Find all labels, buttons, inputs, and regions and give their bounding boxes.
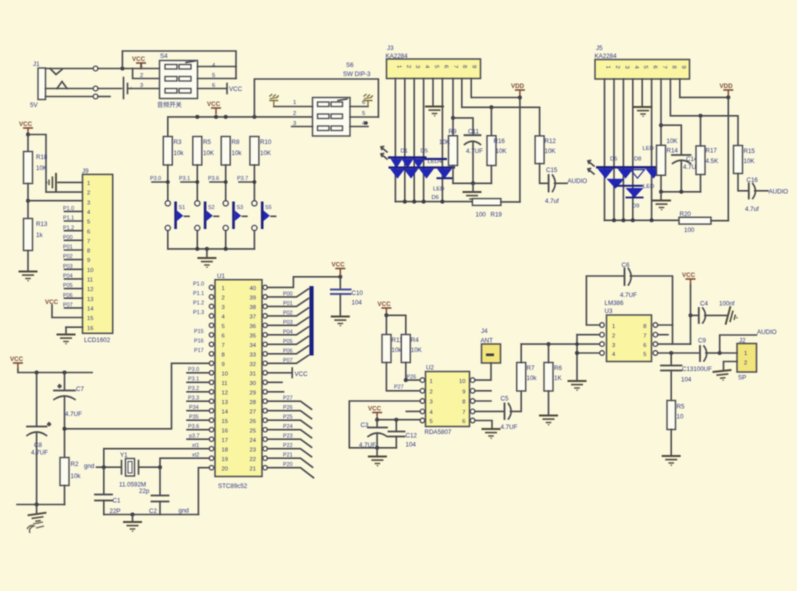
junction crystal right [158, 465, 162, 469]
U1 right pin numbers [250, 286, 257, 472]
svg-text:R3: R3 [174, 139, 182, 146]
svg-text:8: 8 [643, 324, 646, 330]
svg-text:VCC: VCC [132, 56, 146, 63]
svg-text:4.7UF: 4.7UF [620, 292, 637, 299]
svg-text:P02: P02 [63, 254, 73, 260]
svg-text:7: 7 [661, 66, 667, 69]
U3 pin1 wire to C6 loop [586, 276, 623, 325]
wire R12 bottom to C15 [540, 164, 548, 184]
svg-text:AUDIO: AUDIO [568, 178, 588, 185]
S4 switch element row3 [165, 89, 191, 94]
svg-text:R16: R16 [494, 138, 506, 145]
ground below R6 [539, 416, 558, 425]
svg-text:P20: P20 [283, 462, 293, 468]
junction VCC/C10 [338, 275, 342, 279]
crystal top row wire [97, 466, 122, 468]
U2 right pin circles [470, 378, 475, 423]
svg-text:C4: C4 [700, 301, 708, 308]
wire R17 top riser [700, 116, 702, 146]
wire pin7 to C14 top [661, 125, 681, 154]
svg-text:27: 27 [250, 409, 256, 415]
svg-text:10k: 10k [174, 150, 185, 157]
svg-text:R5: R5 [677, 404, 685, 411]
svg-text:20: 20 [222, 466, 228, 472]
svg-text:1: 1 [222, 286, 225, 292]
svg-text:P3.7: P3.7 [237, 176, 248, 182]
svg-text:D6: D6 [610, 157, 617, 163]
junction C13 [669, 351, 673, 355]
VCC bar at S4 pin6 [226, 84, 228, 94]
polarized capacitor at jack ring [124, 78, 133, 99]
U3 pin4 wire [577, 352, 600, 354]
wire R11 bottom to U2 pin2 [386, 363, 422, 391]
svg-text:P01: P01 [63, 245, 73, 251]
LED triangles row2 [390, 169, 405, 179]
svg-text:P1.1: P1.1 [193, 291, 204, 297]
junction dots ground rail [195, 247, 199, 251]
ground below R5 [662, 456, 681, 465]
junction dots rails [659, 190, 663, 194]
svg-text:10: 10 [87, 268, 93, 274]
ground at J3 pin5 [425, 107, 444, 116]
U1 body [215, 280, 262, 477]
svg-text:D6: D6 [432, 195, 439, 201]
svg-text:S1: S1 [179, 205, 186, 211]
svg-text:P26: P26 [407, 375, 417, 381]
svg-text:S5: S5 [265, 205, 272, 211]
svg-text:18: 18 [222, 447, 228, 453]
svg-text:P17: P17 [194, 348, 204, 354]
svg-text:P06: P06 [283, 348, 293, 354]
svg-text:C15: C15 [546, 167, 558, 174]
wire sleeve stub [98, 96, 110, 98]
S6 loop top wire [254, 79, 378, 117]
mini power symbol at S6 pin6 [364, 94, 374, 107]
svg-text:VCC: VCC [45, 299, 59, 306]
svg-text:C3: C3 [361, 422, 369, 429]
svg-text:gnd: gnd [84, 463, 95, 470]
svg-text:7: 7 [452, 65, 458, 68]
wire C10 bottom [339, 294, 341, 316]
J5 pin8 wire to R17/R15 [670, 79, 738, 146]
wire C1 bottom [103, 501, 105, 515]
svg-text:10K: 10K [545, 148, 557, 155]
svg-text:R19: R19 [491, 212, 503, 219]
svg-text:15: 15 [222, 419, 228, 425]
svg-text:P3.6: P3.6 [208, 176, 219, 182]
P2 wires pins 28-21 [267, 401, 313, 478]
S6 switch element row3 [318, 126, 343, 131]
svg-text:6: 6 [362, 100, 365, 106]
svg-text:P25: P25 [283, 415, 293, 421]
wire VCC to pin1 [140, 63, 142, 69]
wire C1 column [103, 467, 105, 494]
resistor R7 [517, 363, 526, 392]
svg-text:22p: 22p [139, 488, 150, 495]
svg-text:VCC: VCC [207, 101, 221, 108]
bottom left rail [17, 504, 65, 506]
svg-text:VDD: VDD [720, 83, 734, 90]
U1 left pin labels P1.x [193, 282, 204, 355]
svg-text:VCC: VCC [332, 262, 346, 269]
wire C13 to R5 [670, 371, 672, 401]
ground smudge artifact [27, 522, 44, 533]
svg-text:J3: J3 [387, 45, 394, 52]
ground below crystal [132, 515, 134, 522]
P2 net labels [283, 396, 293, 469]
wire VCC to R18 [27, 135, 29, 152]
wire U1 pin40 to VCC [267, 277, 340, 288]
svg-text:P1.3: P1.3 [193, 310, 204, 316]
wire C3 bottom [376, 435, 378, 448]
svg-text:1: 1 [87, 181, 90, 187]
svg-text:R13: R13 [36, 221, 48, 228]
wire C9 to output node [706, 352, 720, 354]
junction rail R8 [224, 115, 228, 119]
wire R4 bottom to U2 pin1 [406, 363, 423, 381]
svg-text:D5: D5 [421, 149, 428, 155]
svg-text:10K: 10K [36, 165, 48, 172]
resistor R10 [250, 137, 259, 166]
U2 body [426, 372, 470, 427]
wire S4 pin4 [198, 66, 237, 68]
J5 pin9 wire to VDD [680, 79, 729, 97]
svg-text:4.7UF: 4.7UF [31, 450, 48, 457]
svg-text:P03: P03 [283, 320, 293, 326]
svg-text:R17: R17 [706, 148, 718, 155]
wire R2 bottom [64, 486, 66, 505]
svg-text:5: 5 [643, 352, 646, 358]
resistor R14 [657, 145, 666, 175]
svg-text:R9: R9 [449, 129, 457, 136]
svg-text:28: 28 [250, 400, 256, 406]
wire S4 pin5 [198, 78, 237, 80]
mini power symbol at S6 pin1 [269, 94, 279, 107]
U1 right pin circles [263, 285, 267, 470]
R14/C14/R17 bottom rail [660, 175, 662, 192]
svg-text:3: 3 [414, 65, 420, 68]
S6 pin5 wire [350, 116, 378, 118]
pushbutton S1 [165, 201, 189, 231]
svg-text:1: 1 [612, 324, 615, 330]
svg-text:10K: 10K [439, 139, 451, 146]
svg-text:6: 6 [643, 343, 646, 349]
U1 pin9 RST wire [65, 363, 210, 429]
J3 LED bottom rail [395, 201, 472, 203]
wire C4 to ground [705, 314, 727, 316]
svg-text:40: 40 [250, 286, 256, 292]
svg-text:VCC: VCC [682, 272, 696, 279]
wire R5 bottom [670, 430, 672, 456]
wire ring to cap [98, 88, 122, 90]
U2 pin7 wire to C5 [475, 410, 503, 412]
svg-text:J5: J5 [596, 45, 603, 52]
svg-text:P1.0: P1.0 [193, 282, 204, 288]
node circle sleeve [93, 94, 98, 99]
svg-text:P04: P04 [63, 274, 73, 280]
junction C8/rail [35, 503, 39, 507]
svg-text:104: 104 [406, 442, 417, 449]
svg-text:4.7UF: 4.7UF [65, 411, 82, 418]
S6 switch element row1 [318, 99, 348, 107]
resistor R11 [382, 335, 391, 363]
U3 right pin circles [653, 323, 658, 356]
svg-text:R5: R5 [203, 139, 211, 146]
svg-text:4.7UF: 4.7UF [501, 424, 518, 431]
svg-text:RDA5807: RDA5807 [425, 429, 452, 436]
svg-text:C10: C10 [352, 290, 364, 297]
svg-text:2: 2 [87, 191, 90, 197]
LED mid bar block2 [616, 185, 644, 187]
junction R4/pin1 [404, 378, 408, 382]
svg-text:P1.0: P1.0 [63, 206, 74, 212]
wire R16 top [490, 107, 492, 135]
svg-text:9: 9 [462, 390, 465, 396]
capacitor C15 [549, 175, 556, 192]
svg-text:gnd: gnd [179, 508, 190, 515]
ground below C10 [331, 317, 350, 326]
ground below C11 [472, 183, 474, 191]
svg-text:LM386: LM386 [605, 300, 624, 307]
LED cluster block1 emission arrows [381, 147, 387, 160]
junction crystal gnd [131, 513, 135, 517]
wire S4 pin6 [198, 88, 228, 90]
svg-text:4.7uf: 4.7uf [745, 206, 759, 213]
svg-text:J1: J1 [33, 61, 40, 68]
junction C4 tap [689, 313, 693, 317]
P0 net labels [283, 291, 293, 363]
svg-text:P23: P23 [283, 434, 293, 440]
capacitor C5 [505, 404, 512, 420]
svg-text:P3.1: P3.1 [179, 176, 190, 182]
svg-text:6: 6 [87, 229, 90, 235]
svg-text:4.5K: 4.5K [706, 158, 720, 165]
svg-text:P26: P26 [283, 405, 293, 411]
S6 pin4 wire [350, 126, 368, 128]
VCC symbol at S4 pin1 [136, 63, 146, 70]
wire jack sleeve row [46, 96, 94, 98]
svg-text:R6: R6 [554, 365, 562, 372]
svg-text:S3: S3 [237, 205, 244, 211]
J9 pin numbers [87, 181, 94, 332]
svg-text:R15: R15 [744, 148, 756, 155]
wire R18 bottom [27, 184, 29, 219]
svg-text:1: 1 [744, 351, 747, 357]
wire J2 pin1 [720, 352, 737, 354]
J5 pin7 column to R14 [660, 79, 662, 145]
junction dots P3.x [166, 180, 170, 184]
J9 pin stub wires 4-14 [65, 211, 83, 308]
svg-text:2: 2 [140, 73, 143, 79]
wire R7 top riser [520, 344, 522, 362]
svg-text:5V: 5V [30, 102, 38, 109]
svg-text:AUDIO: AUDIO [757, 329, 777, 336]
junction VCC pullups [384, 313, 388, 317]
svg-text:4.7UF: 4.7UF [359, 442, 376, 449]
svg-text:P1.2: P1.2 [63, 225, 74, 231]
resistor R6 [544, 363, 553, 392]
svg-text:8: 8 [87, 249, 90, 255]
net stubs P3.x [152, 181, 254, 183]
connector J9 body [83, 174, 113, 333]
svg-text:C7: C7 [76, 386, 84, 393]
ground below button rail [206, 249, 208, 258]
LED cathode bar block2 [596, 166, 662, 168]
svg-text:5: 5 [642, 66, 648, 69]
wire S4 pin2 drop [133, 69, 160, 79]
svg-text:VCC: VCC [10, 356, 24, 363]
capacitor C4 [699, 308, 706, 323]
U1 left pin numbers [222, 286, 229, 472]
svg-text:22: 22 [250, 457, 256, 463]
J5 LED bottom rail [605, 219, 680, 221]
svg-text:P1.1: P1.1 [63, 216, 74, 222]
crystal Y1 [122, 459, 139, 477]
wire J4 to U2 pin10 [475, 363, 491, 380]
C3/C12 ground rail [377, 447, 396, 449]
P0 bus bar [309, 286, 313, 355]
svg-text:7: 7 [462, 410, 465, 416]
svg-text:VCC: VCC [368, 406, 382, 413]
svg-text:P3.0: P3.0 [150, 176, 161, 182]
svg-text:LED: LED [643, 184, 654, 190]
J3 pin1-4,6 columns to LED rail [395, 79, 442, 202]
svg-text:P07: P07 [283, 358, 293, 364]
svg-text:P15: P15 [194, 329, 204, 335]
junction rail R5 [195, 115, 199, 119]
wire VCC stem [339, 275, 341, 277]
svg-text:+: + [48, 422, 51, 428]
button ground rail [168, 231, 255, 249]
U3 left pin circles [600, 323, 605, 356]
P0 wires pins 39-32 [267, 289, 308, 363]
svg-text:19: 19 [222, 457, 228, 463]
wire VCC stem to node [385, 315, 387, 335]
J9 pin15 VCC [52, 305, 83, 318]
resistor R19 horizontal [472, 199, 501, 206]
resistor R12 [535, 136, 544, 164]
wire C5 to R7 bottom [510, 391, 521, 411]
svg-text:9: 9 [222, 362, 225, 368]
svg-text:VCC: VCC [19, 121, 33, 128]
J5 pin5 ground column [641, 79, 643, 107]
svg-text:10k: 10k [71, 473, 82, 480]
svg-text:D1: D1 [401, 149, 408, 155]
svg-text:26: 26 [250, 419, 256, 425]
LED triangle row3 block2 [626, 188, 644, 198]
svg-text:4.7uf: 4.7uf [545, 198, 559, 205]
U3 body [607, 315, 652, 362]
svg-text:C11: C11 [468, 129, 479, 136]
resistor R18 [24, 152, 33, 184]
svg-text:8: 8 [461, 65, 467, 68]
wire to R4 top [386, 315, 405, 334]
svg-text:P27: P27 [394, 385, 404, 391]
svg-text:R20: R20 [680, 211, 692, 218]
svg-text:STC89c52: STC89c52 [218, 483, 248, 490]
svg-text:R10: R10 [260, 139, 272, 146]
svg-text:LED4: LED4 [428, 159, 443, 165]
pushbutton S5 [252, 201, 276, 231]
LED triangle row2 block2 [607, 179, 625, 189]
ground bottom left (slanted) [36, 505, 38, 514]
reset VCC rail [18, 370, 92, 373]
svg-text:R18: R18 [36, 154, 48, 161]
svg-text:VCC: VCC [378, 301, 392, 308]
capacitor C10 [331, 290, 351, 295]
svg-text:7: 7 [87, 239, 90, 245]
VDD2 riser to R20 [727, 97, 729, 220]
VCC riser [690, 286, 692, 345]
U1 pin30 stub [267, 381, 282, 383]
wire R15 bottom to C16 [738, 174, 747, 191]
svg-text:5: 5 [87, 220, 90, 226]
resistor R20 horizontal [679, 217, 711, 224]
svg-text:3: 3 [293, 121, 296, 127]
wire C15 to AUDIO [555, 182, 568, 184]
svg-text:P04: P04 [283, 329, 293, 335]
J3 body [387, 59, 481, 79]
junction VDD2 [726, 95, 730, 99]
wire to C4 [691, 314, 698, 316]
svg-text:R7: R7 [527, 365, 535, 372]
capacitor C8 [36, 373, 38, 427]
J1 tip contact [50, 69, 62, 75]
svg-text:R2: R2 [71, 461, 79, 468]
svg-text:100: 100 [476, 212, 487, 219]
node circle tip [93, 66, 98, 71]
svg-text:5: 5 [362, 111, 365, 117]
LED bottom bar block2 [626, 197, 644, 199]
resistor R16 [487, 136, 496, 166]
svg-text:13: 13 [87, 297, 93, 303]
svg-text:9: 9 [471, 65, 477, 68]
pushbutton S2 [195, 201, 219, 231]
wire cap to S4 pin3 [129, 88, 160, 90]
wire J9 pin16 [66, 326, 83, 328]
svg-text:6: 6 [222, 333, 225, 339]
svg-text:3: 3 [140, 83, 143, 89]
junction dots LED rail [403, 200, 407, 204]
capacitor C16 [749, 184, 756, 199]
resistor R13 [24, 219, 33, 251]
wire R13 bottom [27, 251, 29, 272]
ground at U2 pin6 [482, 429, 501, 438]
junction rail VCC [214, 115, 218, 119]
svg-text:R8: R8 [232, 139, 240, 146]
resistor R2 [60, 458, 69, 486]
svg-text:P21: P21 [283, 453, 293, 459]
wire C10 column [339, 277, 341, 289]
svg-text:7: 7 [643, 334, 646, 340]
capacitor C13 [661, 366, 682, 371]
svg-text:13: 13 [222, 400, 228, 406]
svg-text:R14: R14 [667, 148, 679, 155]
svg-text:37: 37 [250, 315, 256, 321]
svg-text:S2: S2 [208, 205, 215, 211]
capacitor C9 [700, 346, 707, 361]
svg-text:35: 35 [250, 333, 256, 339]
junction gnd rail [375, 446, 379, 450]
junction output node [718, 351, 722, 355]
svg-text:14: 14 [87, 307, 94, 313]
svg-text:+: + [58, 384, 61, 390]
junction RST node [63, 427, 67, 431]
svg-text:21: 21 [250, 466, 256, 472]
C6 loop right riser to pin8 area [630, 276, 672, 344]
ground below U3 riser [568, 381, 587, 390]
svg-text:9: 9 [87, 258, 90, 264]
